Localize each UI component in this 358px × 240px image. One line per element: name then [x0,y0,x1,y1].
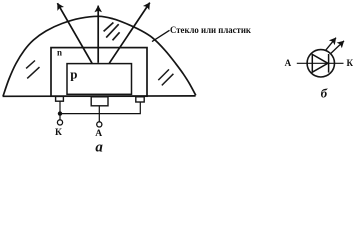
anode pin center [91,97,108,106]
svg-text:А: А [285,58,292,68]
LED symbol: anode lead [297,62,344,64]
light arrow middle [97,6,99,63]
svg-text:Стекло или пластик: Стекло или пластик [170,26,251,36]
glass hatch left [26,61,39,79]
svg-text:p: p [70,67,77,82]
LED symbol: cathode bar [328,54,330,73]
wire: junction bus to right pin [60,102,140,113]
svg-text:К: К [347,58,354,68]
cathode pin right [136,97,144,102]
cathode pin left [56,96,64,101]
n-region rectangle [51,48,147,97]
p-region rectangle [67,64,132,95]
svg-text:n: n [57,48,62,58]
A terminal circle [97,122,102,127]
wire: junction to K terminal [59,114,61,120]
leader line to glass label [152,30,170,41]
wire: left pin down to junction [59,101,61,113]
light arrow left [57,3,92,63]
svg-text:А: А [95,129,102,139]
K terminal circle [57,120,62,125]
light arrow right [109,3,150,64]
LED symbol: light arrow 2 [331,41,344,54]
svg-text:а: а [95,140,103,156]
LED symbol: diode triangle [312,54,328,72]
glass hatch right [158,69,173,85]
wire: center pin to A terminal [98,106,100,122]
svg-text:б: б [321,86,328,101]
LED symbol: light arrow 1 [325,38,336,51]
base line [3,95,196,97]
svg-text:К: К [55,128,62,138]
junction dot [58,111,62,115]
LED symbol: circle U1 [307,50,334,77]
glass hatch top [104,23,120,41]
glass dome (lens body) [3,16,196,96]
